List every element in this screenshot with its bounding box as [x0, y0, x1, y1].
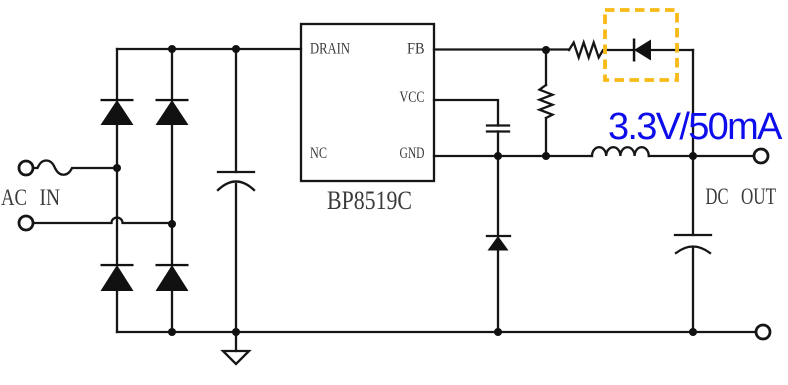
- svg-text:NC: NC: [310, 145, 327, 162]
- svg-text:DRAIN: DRAIN: [310, 41, 350, 58]
- svg-text:DC: DC: [706, 184, 729, 209]
- svg-text:3.3V/50mA: 3.3V/50mA: [608, 106, 783, 148]
- svg-text:GND: GND: [400, 145, 425, 162]
- svg-text:FB: FB: [407, 41, 425, 58]
- svg-text:AC: AC: [1, 185, 27, 210]
- svg-text:IN: IN: [40, 185, 61, 210]
- svg-text:VCC: VCC: [400, 89, 425, 106]
- svg-text:BP8519C: BP8519C: [327, 186, 412, 215]
- svg-text:OUT: OUT: [741, 184, 776, 209]
